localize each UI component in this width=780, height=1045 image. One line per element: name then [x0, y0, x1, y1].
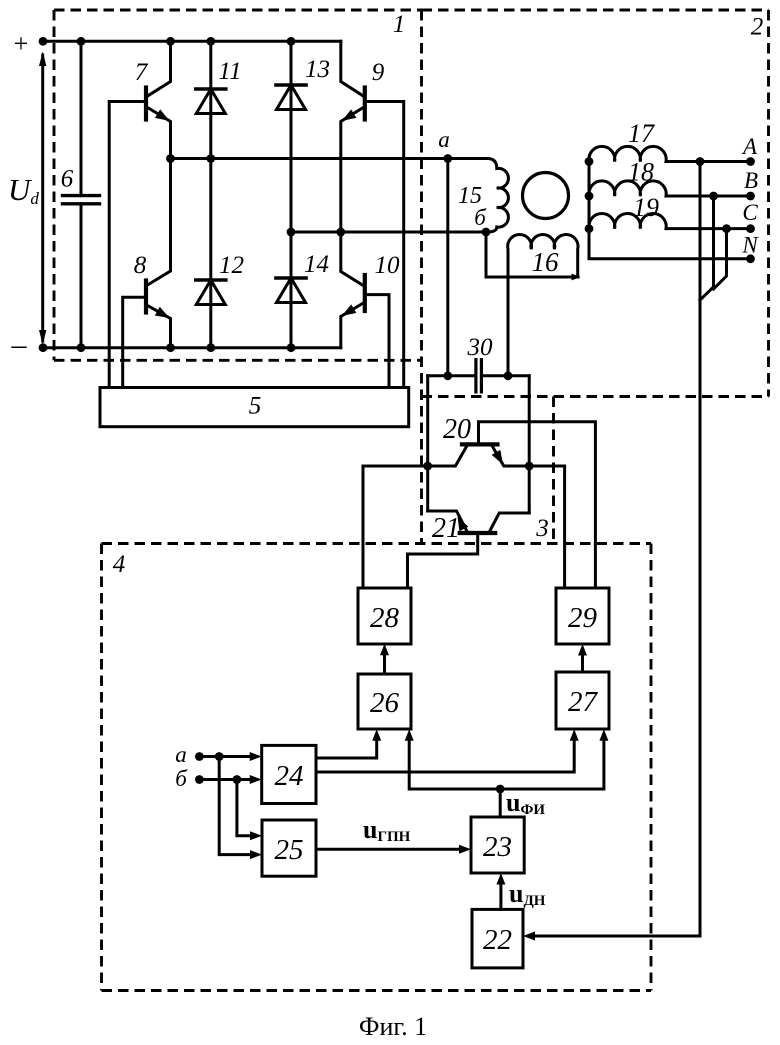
wire: block 24 output 2 to block 27	[316, 729, 579, 772]
Ud measuring double arrow	[39, 52, 46, 345]
junction dots: output line b	[287, 228, 296, 237]
junction dots: switch box 3 rails	[423, 462, 432, 471]
input terminal dots a and b	[195, 752, 204, 761]
svg-text:8: 8	[134, 252, 147, 279]
svg-text:29: 29	[568, 602, 598, 634]
wire: right rail of switch box 3	[528, 376, 531, 513]
svg-text:N: N	[741, 233, 759, 258]
wire: u_DN arrow from block 22 to block 23	[496, 873, 505, 909]
block 29	[556, 588, 609, 644]
svg-text:Фиг. 1: Фиг. 1	[359, 1012, 427, 1041]
svg-text:б: б	[175, 766, 188, 791]
svg-text:12: 12	[219, 252, 244, 279]
svg-text:a: a	[438, 127, 450, 152]
svg-text:–: –	[11, 328, 28, 361]
wire: base of Q8 to driver box 5	[123, 297, 146, 387]
junction dots: output line a	[166, 154, 175, 163]
junction dot u_FI	[496, 785, 505, 794]
transistor Q8	[146, 159, 172, 348]
wire: node b down and right to winding 16	[486, 232, 578, 277]
wire: positive DC bus (top)	[43, 40, 341, 43]
svg-text:5: 5	[249, 393, 262, 420]
svg-text:B: B	[744, 168, 758, 193]
svg-text:27: 27	[568, 686, 599, 718]
svg-text:21: 21	[432, 513, 460, 544]
wire: phase B tap merging into bundle	[700, 196, 714, 300]
motor rotor circle	[523, 173, 569, 219]
dashed box 2 right edge	[767, 10, 770, 397]
svg-text:24: 24	[275, 760, 304, 792]
transistor Q9	[339, 41, 365, 232]
input terminal b wire to block 24	[199, 775, 261, 784]
capacitor C30	[428, 360, 530, 392]
dashed box 1 (inverter unit) top edge	[54, 9, 422, 12]
winding 18 (phase B)	[589, 181, 751, 196]
node b dot	[482, 228, 491, 237]
wire: bridge output line to node b	[291, 231, 486, 234]
terminal dots A B C N	[746, 157, 755, 166]
junction dots: winding left common rail	[585, 157, 594, 166]
winding 16 (coil, series with capacitor 30)	[508, 235, 578, 376]
arrow: block 27 to block 29	[578, 644, 587, 672]
svg-text:4: 4	[113, 551, 126, 578]
wire: u_GPN arrow from block 25 to block 23	[316, 845, 471, 854]
dashed box 4 left edge	[100, 544, 103, 991]
wire: right rail node to block 29	[529, 466, 564, 588]
wire: base of Q20 to block 29	[479, 422, 596, 588]
block 25	[262, 820, 316, 876]
wire: node a down to capacitor 30	[446, 159, 449, 376]
svg-text:25: 25	[275, 834, 304, 866]
svg-text:14: 14	[304, 251, 329, 278]
wire: phase A tap down to block 22	[535, 162, 701, 937]
block 24	[262, 745, 316, 803]
dashed box 3 right edge	[552, 397, 555, 544]
transistor Q7	[146, 41, 172, 158]
svg-text:6: 6	[61, 166, 74, 193]
svg-text:7: 7	[135, 59, 149, 86]
svg-text:26: 26	[370, 687, 400, 719]
transistor Q20	[428, 444, 530, 467]
wire: left rail of switch box 3	[426, 376, 429, 511]
wire: base of Q9 to driver box 5	[365, 102, 404, 388]
svg-text:10: 10	[375, 252, 401, 279]
diode D13	[276, 41, 306, 347]
svg-text:a: a	[175, 742, 187, 767]
dashed box 2 (mains unit) top edge	[422, 9, 769, 12]
diode D14	[276, 278, 306, 303]
winding 19 (phase C)	[589, 214, 751, 229]
svg-text:A: A	[741, 134, 758, 159]
block 22	[472, 909, 523, 968]
block 27	[556, 672, 609, 729]
node a dot	[443, 154, 452, 163]
dashed box 4 right edge	[650, 544, 653, 991]
svg-text:3: 3	[535, 515, 549, 542]
wire: base of Q10 to driver box 5	[365, 295, 389, 388]
wire: branch of b to block 25	[237, 780, 262, 841]
block 28	[358, 588, 411, 644]
arrow: block 26 to block 28	[380, 644, 389, 674]
dashed box 1 bottom edge	[54, 359, 422, 362]
svg-text:9: 9	[372, 59, 385, 86]
junction dots: bottom DC bus	[39, 343, 48, 352]
svg-text:20: 20	[443, 414, 471, 445]
svg-text:22: 22	[483, 924, 512, 956]
dashed box 2 bottom edge / box 3 top edge	[422, 395, 769, 398]
dashed box 3 bottom / box 4 top edge	[102, 542, 652, 545]
svg-text:13: 13	[305, 56, 330, 83]
svg-text:17: 17	[628, 119, 655, 148]
wire: negative DC bus (bottom)	[43, 346, 341, 349]
svg-text:23: 23	[483, 831, 512, 863]
junction dots: top DC bus	[39, 37, 48, 46]
arrowhead into block 22	[523, 932, 535, 941]
svg-text:б: б	[474, 205, 487, 230]
arrowhead on winding 16 bottom wire	[572, 274, 581, 281]
capacitor C6	[63, 41, 100, 347]
svg-text:18: 18	[628, 158, 654, 187]
junction dots: phase taps	[696, 157, 705, 166]
svg-text:1: 1	[393, 11, 406, 38]
dashed divider: box1 right / box2 left / box3 left edge	[420, 10, 423, 544]
svg-text:28: 28	[370, 602, 400, 634]
wire: left rail node to block 28	[363, 466, 428, 588]
input terminal a wire to block 24	[199, 752, 261, 761]
svg-text:+: +	[14, 29, 29, 58]
transistor Q10	[339, 232, 365, 348]
wire: base of Q21 to block 28	[408, 533, 478, 588]
junction dots: capacitor 30 wire	[443, 371, 452, 380]
winding 17 (phase A)	[589, 146, 751, 161]
svg-text:C: C	[742, 200, 758, 225]
wire: block 24 output 1 to block 26	[316, 729, 381, 758]
winding 15 (coil from node a to node b)	[448, 159, 509, 233]
diode D11	[196, 41, 226, 347]
wire: u_FI line from block 23 to blocks 26 and 27	[405, 729, 609, 817]
transistor Q21	[428, 511, 530, 533]
wire: base of Q7 to driver box 5	[109, 102, 146, 388]
svg-text:30: 30	[467, 334, 494, 361]
wire: phase C tap merging into bundle	[714, 229, 727, 289]
dashed box 4 bottom edge	[102, 989, 652, 992]
svg-text:11: 11	[218, 58, 241, 85]
diode D12	[196, 280, 226, 305]
driver box 5	[100, 388, 409, 427]
svg-text:16: 16	[532, 247, 560, 277]
wire: branch of a to block 25	[219, 757, 262, 860]
svg-text:19: 19	[633, 193, 659, 222]
wire: bridge output line to node a	[171, 157, 448, 160]
dashed box 1 left edge	[53, 10, 56, 360]
block 26	[358, 674, 411, 729]
svg-text:2: 2	[751, 14, 764, 41]
block 23	[471, 817, 524, 873]
wire: common left ends of windings 17-19 to terminal N	[589, 162, 751, 259]
